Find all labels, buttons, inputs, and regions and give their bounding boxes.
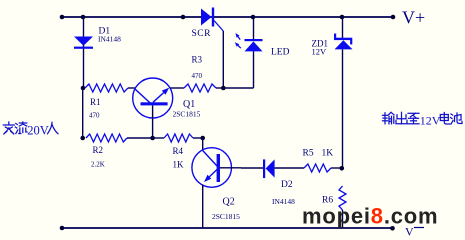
svg-text:R3: R3 bbox=[192, 55, 203, 65]
svg-text:IN4148: IN4148 bbox=[272, 197, 295, 206]
svg-text:12V: 12V bbox=[312, 47, 328, 57]
svg-text:470: 470 bbox=[89, 112, 100, 120]
svg-text:Q1: Q1 bbox=[183, 99, 195, 110]
svg-text:Q2: Q2 bbox=[223, 197, 235, 208]
svg-text:V+: V+ bbox=[402, 8, 425, 28]
svg-text:2.2K: 2.2K bbox=[91, 161, 105, 169]
svg-text:D2: D2 bbox=[281, 180, 293, 190]
svg-text:12V: 12V bbox=[420, 114, 441, 128]
svg-text:IN4148: IN4148 bbox=[98, 35, 121, 44]
svg-text:1K: 1K bbox=[322, 149, 334, 159]
svg-text:470: 470 bbox=[192, 72, 203, 80]
svg-text:R5: R5 bbox=[303, 149, 314, 159]
svg-text:SCR: SCR bbox=[192, 29, 212, 39]
svg-text:20V: 20V bbox=[27, 123, 49, 137]
svg-text:R2: R2 bbox=[93, 145, 104, 155]
svg-text:LED: LED bbox=[271, 48, 290, 58]
svg-text:mopei8.com: mopei8.com bbox=[302, 203, 438, 228]
svg-text:R4: R4 bbox=[173, 146, 184, 156]
svg-text:2SC1815: 2SC1815 bbox=[212, 212, 240, 221]
svg-text:2SC1815: 2SC1815 bbox=[173, 110, 201, 119]
svg-text:R1: R1 bbox=[90, 97, 101, 107]
svg-text:1K: 1K bbox=[173, 160, 185, 170]
